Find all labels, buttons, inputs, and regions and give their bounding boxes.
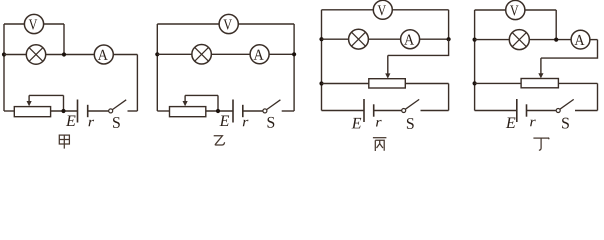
wire: jia top wire right of voltmeter: [44, 23, 64, 25]
wire: yi battery to switch: [243, 110, 263, 112]
voltmeter V (ding): [506, 0, 525, 19]
node: yi right lamp junction: [292, 52, 296, 56]
wire: yi top wire left of voltmeter: [157, 23, 219, 25]
wire: ding left vertical to rheostat: [475, 82, 521, 84]
rheostat R2 body (ding): [521, 79, 558, 88]
wire: jia bottom left segment: [4, 110, 14, 112]
node: ding left lamp junction: [473, 38, 477, 42]
wire: yi ammeter to right junction: [269, 53, 294, 55]
wire: bing top wire right of voltmeter: [392, 9, 448, 11]
wire: bing top wire left of voltmeter: [322, 9, 374, 11]
wire: ding left vertical: [474, 10, 476, 111]
label r (ding): [530, 120, 536, 127]
label S (ding): [562, 118, 569, 129]
wire: jia top wire left of voltmeter: [4, 23, 24, 25]
wire: jia slider vertical to junction: [63, 95, 65, 111]
wire: yi slider horizontal: [185, 94, 218, 96]
wire: ding top wire left of voltmeter: [475, 9, 506, 11]
label E (bing): [352, 118, 362, 128]
wire: yi lamp row left segment: [157, 53, 192, 55]
wire: jia right vertical: [136, 55, 138, 112]
wire: ding bottom left segment: [475, 110, 517, 112]
wire: ding rheostat to right vertical: [558, 82, 597, 84]
node: jia lamp-voltmeter junction: [62, 52, 66, 56]
label r (jia): [88, 120, 94, 127]
node: jia rheostat-slider junction: [61, 109, 65, 113]
rheostat R2 slider arrow (ding): [538, 58, 543, 78]
rheostat R1 body (yi): [170, 107, 206, 117]
wire: ding right vertical lower: [597, 83, 599, 110]
lamp L1 (ding): [509, 30, 529, 50]
switch S (yi): [263, 100, 281, 113]
wire: ding slider feed elbow: [541, 40, 598, 59]
wire: bing battery to switch: [374, 110, 402, 112]
wire: bing left vertical to rheostat: [322, 83, 369, 85]
wire: ding switch to right corner: [575, 110, 598, 112]
wire: yi lamp to ammeter segment: [211, 53, 250, 55]
wire: ding battery to switch: [527, 110, 557, 112]
wire: jia voltmeter right drop: [63, 24, 65, 55]
voltmeter V (jia): [24, 14, 43, 33]
wire: ding top wire right of voltmeter: [525, 9, 556, 11]
wire: jia rheostat to battery: [51, 110, 78, 112]
node: yi rheostat-slider junction: [216, 109, 220, 113]
wire: bing left vertical: [321, 10, 323, 111]
wire: ding voltmeter right drop: [555, 10, 557, 40]
wire: yi slider vertical to junction: [217, 95, 219, 111]
node: ding lamp-voltmeter junction: [554, 38, 558, 42]
wire: ding lamp row left segment: [475, 39, 510, 41]
wire: yi left vertical: [156, 24, 158, 111]
wire: bing switch to right corner: [421, 110, 449, 112]
rheostat R1 body (jia): [14, 107, 50, 117]
caption jia: [59, 135, 69, 149]
node: bing left rheostat junction: [319, 81, 323, 85]
label E (yi): [219, 116, 229, 126]
wire: jia battery to switch: [88, 110, 109, 112]
caption yi: [214, 136, 225, 145]
wire: jia slider horizontal: [29, 94, 63, 96]
wire: yi bottom left segment: [157, 110, 169, 112]
ammeter A (ding): [571, 30, 590, 49]
label S (yi): [268, 117, 275, 128]
ammeter A (yi): [250, 45, 269, 64]
label r (bing): [376, 120, 382, 127]
label E (jia): [66, 116, 76, 126]
battery E (yi): [233, 100, 243, 123]
rheostat R2 body (bing): [369, 79, 406, 88]
wire: jia ammeter to right corner: [113, 54, 137, 56]
wire: ding ammeter to right corner: [590, 39, 598, 41]
rheostat R2 slider arrow (bing): [385, 55, 390, 78]
wire: yi top wire right of voltmeter: [238, 23, 294, 25]
node: ding left rheostat junction: [473, 81, 477, 85]
ammeter A (jia): [94, 45, 113, 64]
label S (jia): [113, 117, 120, 128]
node: yi left lamp junction: [155, 52, 159, 56]
wire: jia left vertical: [3, 24, 5, 111]
label E (ding): [506, 118, 516, 128]
voltmeter V (yi): [219, 14, 238, 33]
wire: bing lamp row left segment: [322, 38, 349, 40]
rheostat R1 slider arrow (jia): [27, 95, 32, 106]
rheostat R1 slider arrow (yi): [183, 95, 188, 106]
battery E (jia): [78, 100, 88, 123]
wire: jia switch to right corner: [128, 110, 138, 112]
wire: ding lamp to junction segment: [529, 39, 571, 41]
node: bing right lamp junction: [447, 37, 451, 41]
wire: yi right vertical: [293, 24, 295, 111]
wire: yi rheostat to battery: [206, 110, 233, 112]
wire: bing rheostat to right vertical: [405, 83, 448, 85]
wire: bing right vertical lower: [448, 84, 450, 111]
wire: bing ammeter to right junction: [420, 38, 449, 40]
label r (yi): [243, 120, 249, 127]
ammeter A (bing): [401, 30, 420, 49]
battery E (bing): [364, 99, 374, 122]
switch S (jia): [109, 100, 127, 113]
wire: yi switch to right corner: [282, 110, 294, 112]
wire: bing right vertical upper: [448, 10, 450, 39]
wire: jia lamp row left segment: [4, 54, 26, 56]
battery E (ding): [517, 99, 527, 122]
lamp L1 (jia): [26, 45, 45, 64]
node: jia left lamp junction: [2, 52, 6, 56]
caption ding: [533, 138, 549, 151]
wire: jia lamp to ammeter segment: [46, 54, 95, 56]
lamp L1 (bing): [349, 29, 369, 49]
label S (bing): [407, 118, 414, 129]
voltmeter V (bing): [373, 0, 392, 19]
lamp L1 (yi): [192, 45, 212, 65]
wire: bing slider feed elbow: [388, 39, 449, 55]
node: bing left lamp junction: [319, 37, 323, 41]
switch S (bing): [402, 99, 420, 112]
switch S (ding): [556, 99, 574, 112]
wire: bing bottom left segment: [322, 110, 365, 112]
caption bing: [373, 138, 387, 151]
wire: bing lamp to ammeter segment: [368, 38, 400, 40]
